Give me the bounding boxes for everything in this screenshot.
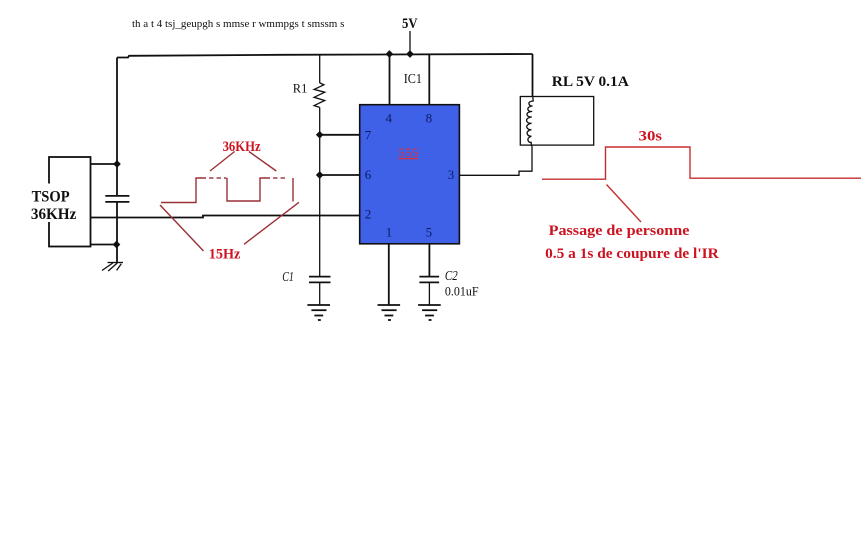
svg-text:6: 6 bbox=[365, 167, 372, 182]
svg-text:36KHz: 36KHz bbox=[223, 139, 261, 155]
svg-text:15Hz: 15Hz bbox=[209, 247, 241, 263]
svg-text:R1: R1 bbox=[293, 81, 308, 96]
svg-text:TSOP: TSOP bbox=[32, 189, 70, 206]
svg-text:0.5 a 1s de coupure de l'IR: 0.5 a 1s de coupure de l'IR bbox=[545, 246, 719, 262]
svg-text:8: 8 bbox=[426, 111, 433, 126]
svg-text:IC1: IC1 bbox=[404, 71, 422, 86]
svg-text:5: 5 bbox=[426, 224, 433, 239]
svg-text:C2: C2 bbox=[445, 268, 458, 283]
svg-text:th a t 4 tsj_geupgh s mmse: th a t 4 tsj_geupgh s mmse r wmmpgs t sm… bbox=[132, 18, 344, 30]
svg-text:5V: 5V bbox=[402, 16, 418, 32]
svg-text:Passage de personne: Passage de personne bbox=[549, 223, 690, 239]
svg-text:2: 2 bbox=[365, 207, 372, 222]
svg-text:555: 555 bbox=[398, 145, 418, 160]
svg-text:30s: 30s bbox=[639, 129, 663, 145]
svg-text:3: 3 bbox=[448, 167, 455, 182]
svg-text:RL 5V 0.1A: RL 5V 0.1A bbox=[552, 74, 629, 90]
svg-text:36KHz: 36KHz bbox=[31, 206, 77, 223]
svg-text:1: 1 bbox=[386, 224, 393, 239]
svg-text:0.01uF: 0.01uF bbox=[445, 284, 479, 299]
svg-text:C1: C1 bbox=[282, 269, 294, 284]
svg-text:7: 7 bbox=[365, 127, 372, 142]
svg-text:4: 4 bbox=[386, 111, 393, 126]
